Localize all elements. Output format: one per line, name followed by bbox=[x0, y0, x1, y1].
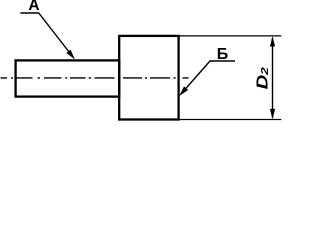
leader A line bbox=[20, 13, 73, 57]
shaft large cylinder (right step outline) bbox=[119, 36, 178, 120]
shaft small cylinder (left step outline) bbox=[16, 60, 120, 96]
dimension arrow up bbox=[270, 36, 275, 47]
dimension line D2 bbox=[272, 38, 274, 118]
dimension arrow down bbox=[270, 109, 275, 120]
extension line bottom bbox=[180, 119, 282, 121]
leader B line bbox=[181, 61, 235, 94]
svg-text:Б: Б bbox=[217, 46, 229, 63]
svg-text:А: А bbox=[28, 0, 39, 14]
leader B arrowhead bbox=[179, 86, 188, 96]
leader A arrowhead bbox=[66, 50, 75, 60]
extension line top bbox=[180, 35, 282, 37]
centerline (dash-dot axis of shaft) bbox=[1, 77, 189, 79]
